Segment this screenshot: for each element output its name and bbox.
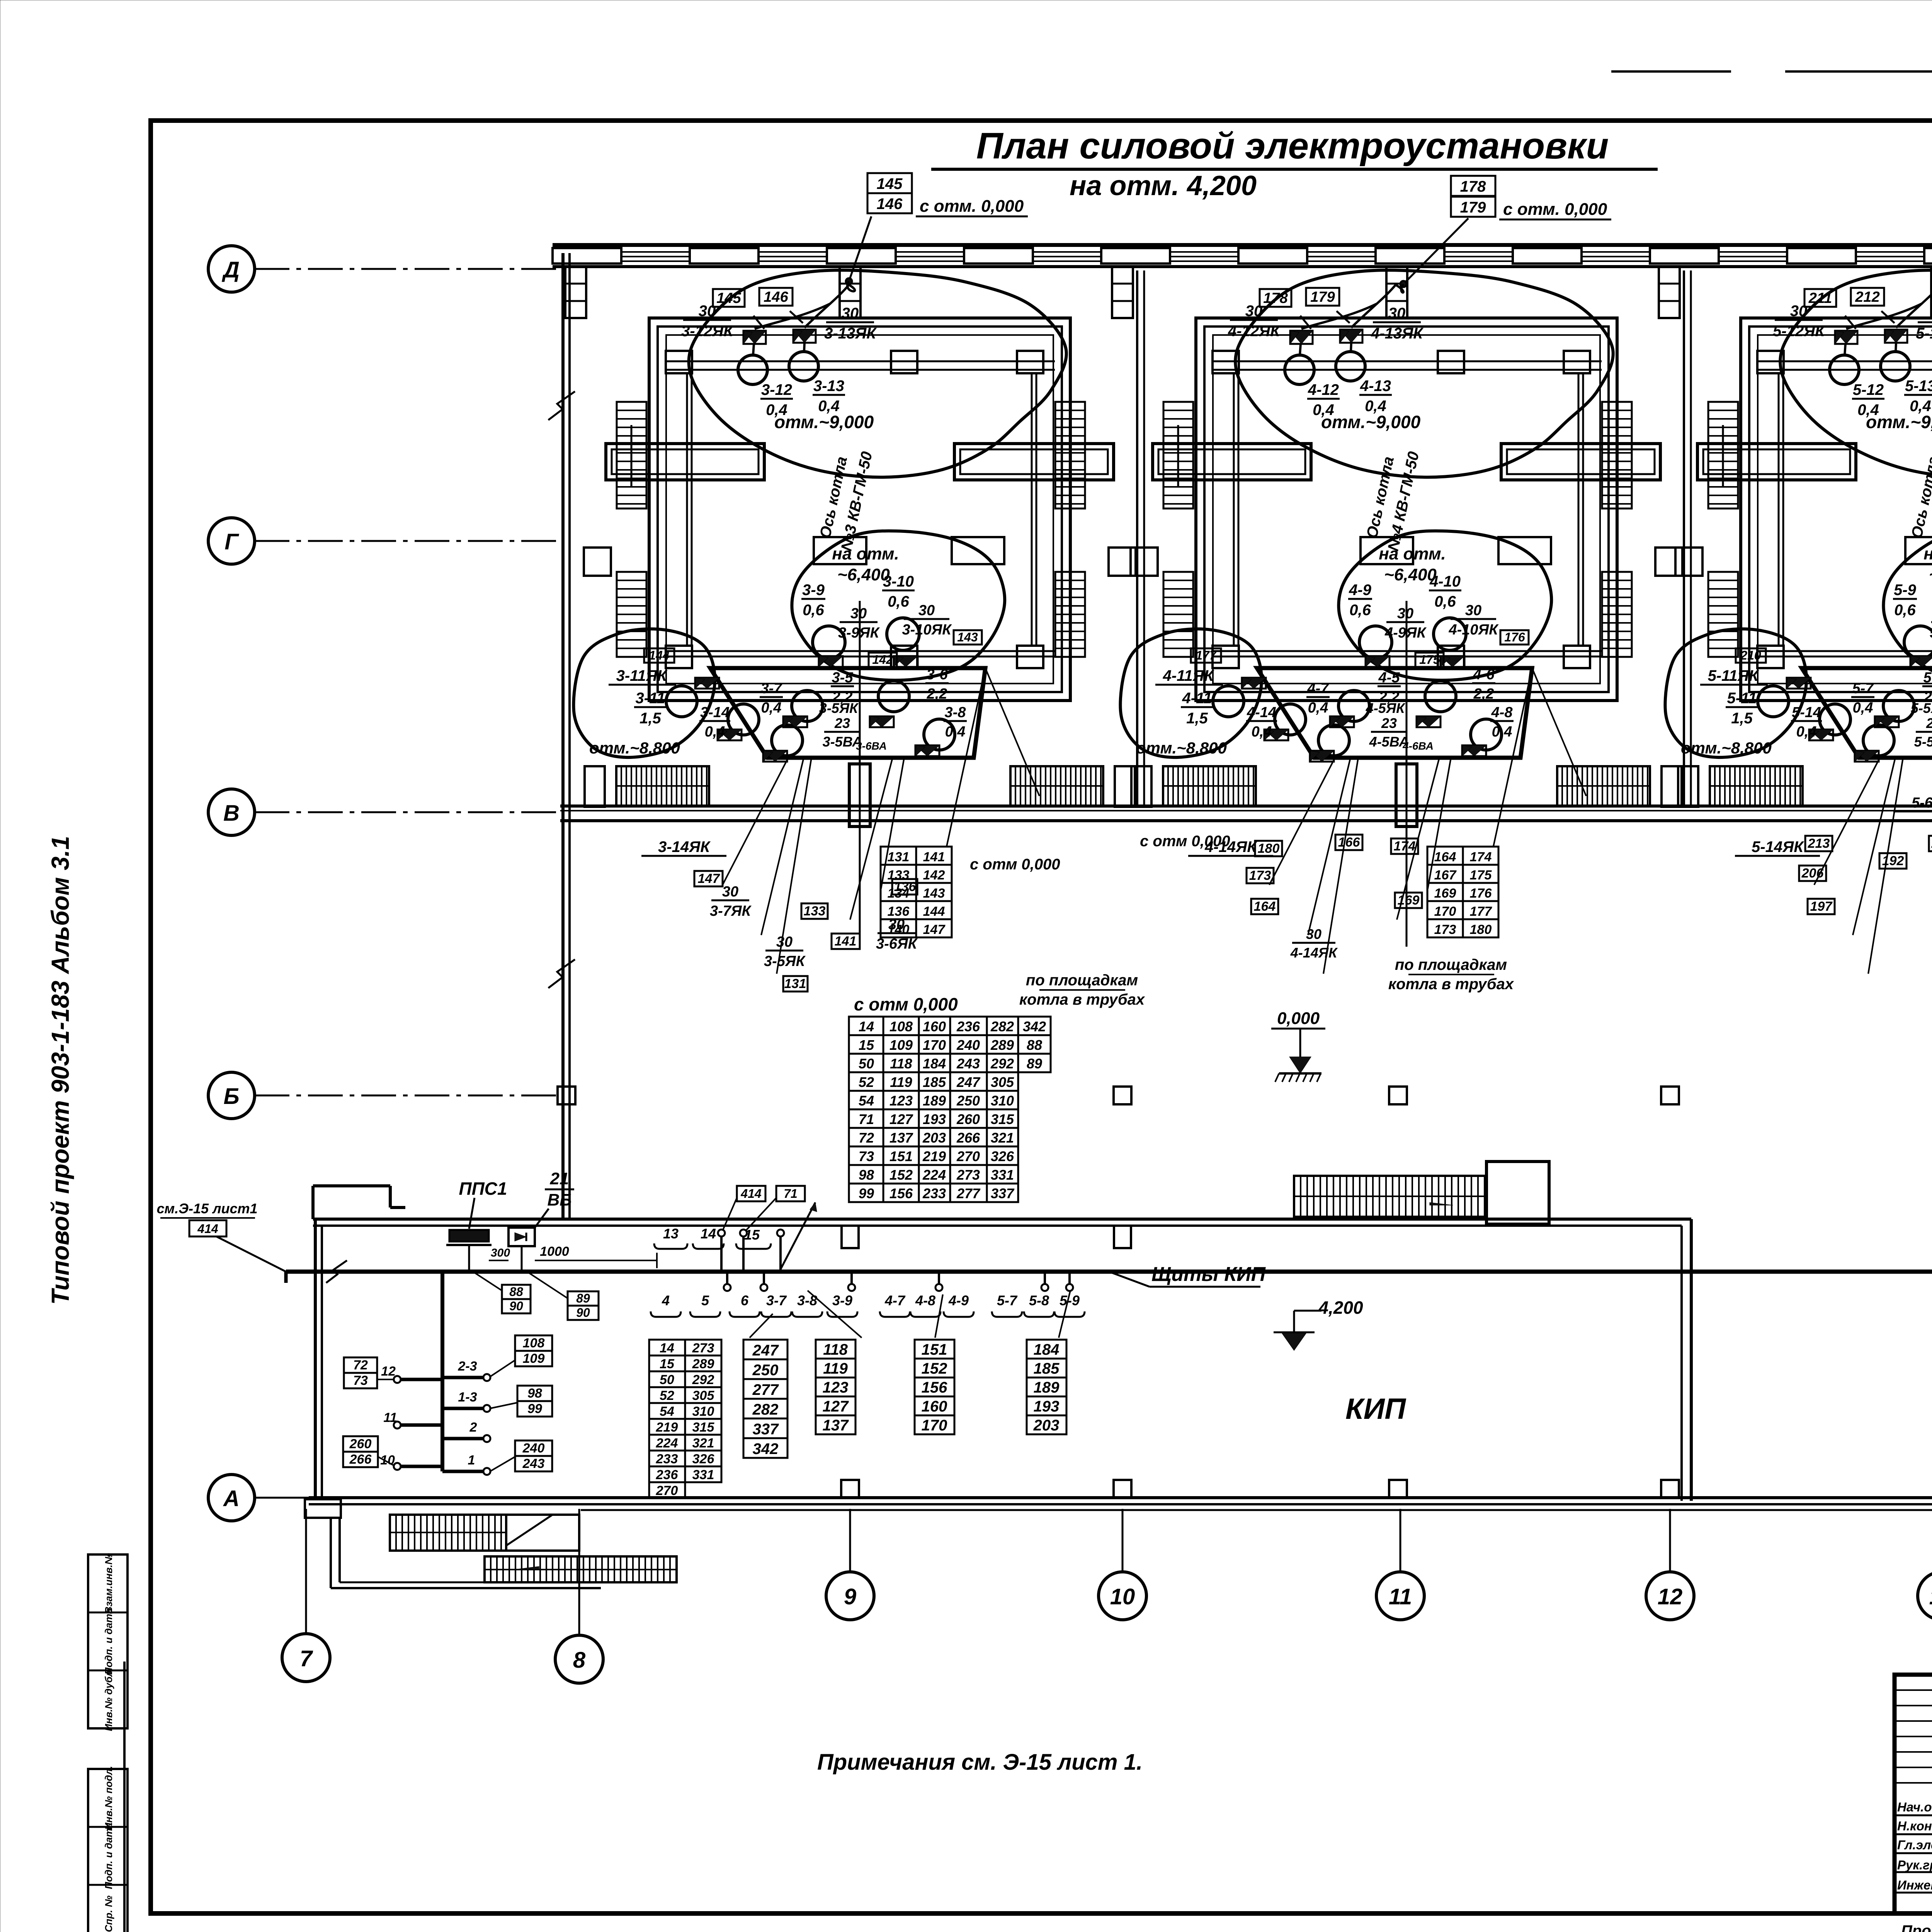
hall left wall bbox=[563, 253, 570, 1219]
label boxes 145 146 bbox=[867, 173, 1028, 216]
svg-text:0,4: 0,4 bbox=[1252, 724, 1272, 740]
boiler 4 mid label elev bbox=[1379, 544, 1446, 584]
partition column line 1 bbox=[1137, 270, 1144, 806]
boiler 3 mid label elev bbox=[832, 544, 899, 584]
boiler 4 label 14 bbox=[1246, 704, 1277, 740]
partition column line 2 bbox=[1684, 270, 1691, 806]
svg-text:по площадкам: по площадкам bbox=[1395, 956, 1507, 973]
svg-text:152: 152 bbox=[889, 1167, 913, 1183]
svg-text:180: 180 bbox=[1258, 841, 1280, 856]
svg-text:3-10ЯК: 3-10ЯК bbox=[902, 622, 952, 638]
boiler 3 label box 143 bbox=[954, 630, 982, 645]
svg-text:Г: Г bbox=[224, 529, 239, 554]
boiler 3 left flag bbox=[695, 678, 719, 689]
boiler 3 feeder label 10 bbox=[902, 602, 952, 638]
svg-text:5-13: 5-13 bbox=[1905, 378, 1932, 395]
svg-text:4-9ЯК: 4-9ЯК bbox=[1384, 625, 1427, 641]
svg-text:236: 236 bbox=[956, 1019, 980, 1034]
boiler 4 panel label 5yak bbox=[1366, 700, 1406, 716]
svg-text:1,5: 1,5 bbox=[639, 710, 661, 727]
svg-text:В: В bbox=[223, 801, 240, 826]
svg-text:30: 30 bbox=[1306, 926, 1321, 942]
label box 88-90 bbox=[475, 1273, 531, 1313]
svg-text:197: 197 bbox=[1810, 899, 1833, 914]
svg-text:Инв.№ подл.: Инв.№ подл. bbox=[103, 1766, 114, 1830]
svg-text:179: 179 bbox=[1460, 199, 1486, 216]
stair hatch top of KIP bbox=[1294, 1176, 1486, 1217]
svg-text:14: 14 bbox=[859, 1019, 874, 1034]
boiler 5 lower labels bbox=[1735, 795, 1932, 914]
svg-text:282: 282 bbox=[752, 1401, 779, 1418]
boiler 5 left label 11yak bbox=[1700, 667, 1768, 685]
feeder branches right bbox=[442, 1359, 490, 1475]
svg-text:0,4: 0,4 bbox=[705, 724, 725, 740]
axis 7 line bbox=[305, 1509, 307, 1634]
svg-text:на отм.: на отм. bbox=[832, 544, 899, 563]
boiler 5 mid label elev bbox=[1923, 544, 1932, 584]
svg-text:175: 175 bbox=[1470, 868, 1492, 883]
svg-text:177: 177 bbox=[1196, 648, 1217, 662]
svg-text:273: 273 bbox=[692, 1341, 714, 1355]
label box 98-99 bbox=[490, 1386, 552, 1417]
boiler 5 panel label 23 bbox=[1914, 715, 1932, 750]
svg-text:170: 170 bbox=[923, 1037, 946, 1053]
svg-text:210: 210 bbox=[1740, 648, 1761, 662]
boiler 4 label box 144 bbox=[1191, 648, 1221, 663]
svg-text:0,6: 0,6 bbox=[888, 593, 909, 610]
svg-text:5-11ЯК: 5-11ЯК bbox=[1708, 667, 1759, 684]
svg-text:184: 184 bbox=[923, 1056, 946, 1071]
svg-text:5-11: 5-11 bbox=[1727, 690, 1757, 707]
boiler 4 label box 143 bbox=[1500, 630, 1529, 645]
svg-text:14: 14 bbox=[701, 1226, 716, 1242]
boiler 4 left flag bbox=[1242, 678, 1266, 689]
svg-text:173: 173 bbox=[1434, 922, 1456, 937]
boiler 4 panel label 6 bbox=[1472, 667, 1495, 702]
stair block lower left bbox=[390, 1515, 579, 1551]
svg-text:0,4: 0,4 bbox=[1796, 724, 1817, 740]
boiler 4 motor label 10 bbox=[1429, 573, 1461, 610]
svg-text:88: 88 bbox=[1027, 1037, 1042, 1053]
boiler 3 lower labels bbox=[641, 838, 918, 992]
svg-text:отм.~8,800: отм.~8,800 bbox=[1681, 739, 1772, 757]
svg-text:9: 9 bbox=[844, 1584, 856, 1609]
svg-text:23: 23 bbox=[834, 715, 850, 731]
svg-text:247: 247 bbox=[752, 1342, 779, 1359]
boiler 5 platform beams bbox=[1697, 444, 1932, 480]
axis А line bbox=[255, 1497, 309, 1499]
svg-text:15: 15 bbox=[859, 1037, 874, 1053]
boiler 4 mid works cloud bbox=[1338, 531, 1551, 680]
table boiler 4 circuits bbox=[1427, 847, 1498, 937]
svg-text:6: 6 bbox=[741, 1293, 749, 1308]
svg-text:184: 184 bbox=[1034, 1341, 1060, 1358]
svg-text:ППС1: ППС1 bbox=[459, 1179, 507, 1199]
svg-text:211: 211 bbox=[1808, 290, 1832, 306]
svg-text:4-7: 4-7 bbox=[884, 1293, 906, 1308]
axis В line bbox=[255, 811, 560, 813]
svg-text:3-11ЯК: 3-11ЯК bbox=[616, 667, 668, 684]
svg-text:243: 243 bbox=[522, 1456, 545, 1471]
svg-text:178: 178 bbox=[1263, 290, 1288, 306]
margin text: project name bbox=[46, 836, 74, 1304]
svg-text:156: 156 bbox=[922, 1379, 947, 1396]
boiler 5 panel label 5yak bbox=[1911, 700, 1932, 716]
title block frame bbox=[1895, 1675, 1932, 1913]
svg-text:Инженер: Инженер bbox=[1897, 1878, 1932, 1892]
svg-text:174: 174 bbox=[1470, 850, 1492, 864]
svg-text:213: 213 bbox=[1808, 836, 1830, 851]
annex top wall stubs bbox=[842, 1226, 1131, 1248]
svg-text:315: 315 bbox=[991, 1111, 1014, 1127]
svg-text:12: 12 bbox=[381, 1364, 396, 1379]
svg-text:3-7: 3-7 bbox=[766, 1293, 787, 1308]
boiler 3 label box B bbox=[759, 288, 793, 306]
boiler 4 label box 142 bbox=[1415, 653, 1444, 667]
sheet left edge bbox=[123, 1662, 126, 1932]
svg-text:5-5ЯК: 5-5ЯК bbox=[1911, 700, 1932, 716]
boiler 5 axis label bbox=[1908, 450, 1932, 553]
svg-text:4: 4 bbox=[662, 1293, 670, 1308]
svg-text:180: 180 bbox=[1470, 922, 1492, 937]
svg-text:140: 140 bbox=[888, 922, 910, 937]
svg-text:233: 233 bbox=[922, 1185, 946, 1201]
boiler 3 axis line bbox=[859, 601, 861, 947]
svg-text:4,200: 4,200 bbox=[1318, 1298, 1363, 1318]
svg-text:4-6: 4-6 bbox=[1473, 667, 1495, 683]
boiler 4 motor label 9 bbox=[1348, 582, 1372, 619]
svg-text:250: 250 bbox=[956, 1093, 980, 1109]
boiler 5 feeder label 13 bbox=[1916, 305, 1932, 342]
circuit group row bbox=[651, 1272, 1085, 1317]
svg-text:99: 99 bbox=[859, 1185, 874, 1201]
svg-text:414: 414 bbox=[197, 1222, 218, 1236]
svg-text:1-3: 1-3 bbox=[458, 1390, 477, 1405]
boiler 3 control panel bbox=[710, 668, 985, 758]
svg-text:54: 54 bbox=[859, 1093, 874, 1109]
boiler 4 panel label 7 bbox=[1306, 680, 1330, 716]
boiler 5 left flag bbox=[1787, 678, 1811, 689]
svg-text:5-9: 5-9 bbox=[1894, 582, 1917, 599]
boiler 3 casing bbox=[649, 318, 1070, 701]
svg-text:127: 127 bbox=[889, 1111, 913, 1127]
svg-text:109: 109 bbox=[889, 1037, 913, 1053]
margin stamp box upper bbox=[88, 1553, 128, 1731]
boiler 3 feeder label 13 bbox=[824, 305, 877, 342]
margin stamp box lower bbox=[88, 1766, 128, 1932]
svg-text:отм.~9,000: отм.~9,000 bbox=[1866, 412, 1932, 432]
svg-text:2,2: 2,2 bbox=[927, 686, 947, 702]
svg-text:50: 50 bbox=[859, 1056, 874, 1071]
boiler 4 panel label 23 bbox=[1369, 715, 1409, 750]
svg-text:289: 289 bbox=[990, 1037, 1014, 1053]
svg-text:164: 164 bbox=[1254, 899, 1276, 914]
boiler 5 mid motors bbox=[1904, 618, 1932, 658]
table main c otm 0000 bbox=[849, 1017, 1051, 1202]
svg-text:193: 193 bbox=[923, 1111, 946, 1127]
svg-text:300: 300 bbox=[491, 1247, 510, 1259]
svg-text:3-7ЯК: 3-7ЯК bbox=[710, 903, 752, 919]
feeder riser bbox=[440, 1272, 444, 1471]
svg-text:192: 192 bbox=[1882, 854, 1904, 868]
boiler 3 mid works cloud bbox=[792, 531, 1005, 680]
table circuits 4 bbox=[915, 1340, 954, 1434]
svg-text:21: 21 bbox=[550, 1169, 569, 1188]
svg-text:72: 72 bbox=[353, 1358, 368, 1372]
svg-text:170: 170 bbox=[922, 1417, 947, 1434]
boiler 4 lower labels bbox=[1188, 835, 1422, 961]
svg-text:189: 189 bbox=[923, 1093, 946, 1109]
svg-text:Б: Б bbox=[223, 1084, 239, 1109]
svg-text:141: 141 bbox=[835, 934, 857, 949]
svg-text:11: 11 bbox=[1389, 1584, 1412, 1609]
svg-text:71: 71 bbox=[784, 1187, 798, 1201]
boiler 3 panel distribution boxes bbox=[718, 716, 939, 762]
boiler 4 platform beams bbox=[1153, 444, 1660, 480]
axis circle 11 bbox=[1376, 1572, 1424, 1620]
svg-text:321: 321 bbox=[692, 1436, 714, 1451]
svg-text:240: 240 bbox=[522, 1441, 545, 1456]
svg-text:3-6: 3-6 bbox=[927, 667, 948, 683]
boiler 3 bottom rail bbox=[665, 646, 1055, 668]
svg-text:13: 13 bbox=[663, 1226, 679, 1242]
boiler 4 left motor bbox=[1213, 686, 1244, 717]
svg-text:292: 292 bbox=[990, 1056, 1014, 1071]
leader t4 bbox=[935, 1294, 943, 1338]
svg-text:Типовой проект 903-1-183: Типовой проект 903-1-183 Альбом 3.1 bbox=[46, 836, 74, 1304]
svg-text:152: 152 bbox=[922, 1360, 947, 1377]
break mark on left wall lower bbox=[548, 959, 575, 988]
boiler 3 top rail bbox=[665, 351, 1055, 373]
svg-text:151: 151 bbox=[889, 1148, 913, 1164]
boiler 4 bottom rail bbox=[1211, 646, 1602, 668]
boiler 3 panel label 6va bbox=[856, 740, 887, 752]
label box 240-243 bbox=[490, 1440, 552, 1471]
svg-text:219: 219 bbox=[922, 1148, 946, 1164]
svg-text:Рук.гр.: Рук.гр. bbox=[1897, 1858, 1932, 1872]
svg-text:котла в трубах: котла в трубах bbox=[1019, 991, 1145, 1008]
arrow to 15 bbox=[781, 1202, 817, 1269]
sheet top edge dashed line bbox=[1611, 70, 1932, 73]
svg-text:247: 247 bbox=[956, 1074, 981, 1090]
svg-text:266: 266 bbox=[349, 1452, 372, 1467]
svg-text:147: 147 bbox=[698, 871, 721, 886]
boiler 5 side columns bbox=[1779, 373, 1932, 646]
boiler 3 upper motors bbox=[738, 343, 818, 384]
svg-text:305: 305 bbox=[692, 1388, 715, 1403]
boiler 5 upper motors bbox=[1830, 343, 1910, 384]
boiler 5 panel label 7 bbox=[1851, 680, 1874, 716]
svg-text:73: 73 bbox=[353, 1373, 368, 1388]
boiler 4 left label 11yak bbox=[1155, 667, 1223, 685]
boiler 4 mid motors bbox=[1359, 618, 1466, 658]
svg-text:143: 143 bbox=[923, 886, 945, 901]
svg-text:151: 151 bbox=[922, 1341, 947, 1358]
boiler 4 elev label 9000 bbox=[1321, 412, 1421, 432]
boiler 5 label box B bbox=[1851, 288, 1884, 306]
svg-text:4-14ЯК: 4-14ЯК bbox=[1290, 945, 1338, 961]
svg-text:4-7: 4-7 bbox=[1307, 680, 1330, 697]
axis 11 line bbox=[1400, 1509, 1401, 1572]
svg-text:73: 73 bbox=[859, 1148, 874, 1164]
svg-text:на отм.: на отм. bbox=[1923, 544, 1932, 563]
boiler 4 casing bbox=[1196, 318, 1617, 701]
svg-text:А: А bbox=[223, 1486, 240, 1511]
svg-text:243: 243 bbox=[956, 1056, 980, 1071]
svg-text:4-9: 4-9 bbox=[1349, 582, 1372, 599]
svg-text:342: 342 bbox=[1023, 1019, 1046, 1034]
boiler 4 mid flags bbox=[1366, 656, 1464, 667]
annex left wall bbox=[315, 1219, 322, 1498]
svg-text:Нач.отд: Нач.отд bbox=[1897, 1800, 1932, 1814]
svg-text:289: 289 bbox=[692, 1357, 714, 1371]
svg-text:193: 193 bbox=[1034, 1398, 1060, 1415]
svg-text:414: 414 bbox=[740, 1187, 762, 1201]
svg-text:4-10: 4-10 bbox=[1429, 573, 1461, 590]
axis circle Б bbox=[208, 1072, 255, 1119]
svg-text:с отм 0,000: с отм 0,000 bbox=[1140, 833, 1230, 850]
svg-text:1000: 1000 bbox=[540, 1244, 569, 1259]
boiler 4 side cabinets bbox=[1131, 548, 1682, 576]
dimension 1000 bbox=[535, 1244, 657, 1268]
boiler 3 motor label 10 bbox=[882, 573, 915, 610]
svg-text:4-9: 4-9 bbox=[948, 1293, 969, 1308]
boiler 4 panel distribution boxes bbox=[1264, 716, 1486, 762]
svg-text:310: 310 bbox=[991, 1093, 1014, 1109]
boiler 4 ladders bbox=[1163, 402, 1632, 657]
boiler 3 top leader bbox=[846, 216, 871, 291]
svg-text:266: 266 bbox=[956, 1130, 980, 1146]
KIP room label bbox=[1345, 1393, 1406, 1425]
svg-text:0,4: 0,4 bbox=[1853, 700, 1873, 716]
boiler 4 label box B bbox=[1306, 288, 1339, 306]
svg-text:23: 23 bbox=[1926, 715, 1932, 731]
svg-text:89: 89 bbox=[1027, 1056, 1042, 1071]
svg-text:с отм. 0,000: с отм. 0,000 bbox=[920, 197, 1024, 216]
svg-text:173: 173 bbox=[1249, 868, 1271, 883]
svg-text:52: 52 bbox=[859, 1074, 874, 1090]
svg-text:203: 203 bbox=[922, 1130, 946, 1146]
svg-text:71: 71 bbox=[859, 1111, 874, 1127]
axis 9 line bbox=[849, 1509, 851, 1572]
svg-text:142: 142 bbox=[872, 653, 893, 667]
svg-text:109: 109 bbox=[523, 1351, 545, 1366]
axis circle 10 bbox=[1099, 1572, 1146, 1620]
svg-text:~6,400: ~6,400 bbox=[1929, 565, 1932, 584]
svg-text:185: 185 bbox=[923, 1074, 946, 1090]
svg-text:5-13ЯК: 5-13ЯК bbox=[1916, 325, 1932, 342]
title block signature rows bbox=[1897, 1799, 1932, 1893]
svg-text:326: 326 bbox=[991, 1148, 1014, 1164]
boiler 5 ladders bbox=[1708, 402, 1932, 657]
label box 89-90 bbox=[529, 1273, 599, 1320]
boiler 4 motor label 13 bbox=[1359, 378, 1392, 415]
svg-text:5-8: 5-8 bbox=[1029, 1293, 1049, 1308]
svg-text:3-14: 3-14 bbox=[700, 704, 730, 721]
svg-text:137: 137 bbox=[823, 1417, 849, 1434]
boiler 4 panel label 8 bbox=[1490, 704, 1514, 740]
boiler 3 left elev 8800 bbox=[589, 739, 680, 757]
svg-text:145: 145 bbox=[877, 175, 903, 192]
boiler 4 axis label bbox=[1363, 450, 1422, 553]
boiler 3 motor label 9 bbox=[801, 582, 825, 619]
svg-text:5-7: 5-7 bbox=[997, 1293, 1018, 1308]
axis 12 line bbox=[1669, 1509, 1671, 1572]
svg-text:5-12ЯК: 5-12ЯК bbox=[1773, 323, 1825, 340]
svg-text:185: 185 bbox=[1034, 1360, 1060, 1377]
axis Г line bbox=[255, 540, 560, 542]
svg-text:147: 147 bbox=[923, 922, 946, 937]
boiler 3 mid motors bbox=[813, 618, 919, 658]
svg-text:2: 2 bbox=[469, 1420, 477, 1435]
svg-text:331: 331 bbox=[991, 1167, 1014, 1183]
svg-text:277: 277 bbox=[956, 1185, 981, 1201]
svg-text:30: 30 bbox=[1388, 305, 1406, 322]
svg-text:175: 175 bbox=[1419, 653, 1440, 667]
svg-text:0,6: 0,6 bbox=[1349, 602, 1371, 619]
axis circle 13 bbox=[1918, 1572, 1932, 1620]
svg-text:с отм 0,000: с отм 0,000 bbox=[970, 856, 1060, 873]
svg-text:156: 156 bbox=[889, 1185, 913, 1201]
boiler 5 hatch openings bbox=[1905, 537, 1932, 564]
boiler 5 motor label 12 bbox=[1852, 381, 1884, 418]
svg-text:30: 30 bbox=[918, 602, 935, 619]
svg-text:5-6ЯК: 5-6ЯК bbox=[1912, 795, 1932, 811]
label box 108-109 bbox=[490, 1335, 552, 1377]
title block below frame bbox=[1901, 1922, 1932, 1932]
svg-text:4-11ЯК: 4-11ЯК bbox=[1163, 667, 1214, 684]
PPS1 panel symbol bbox=[446, 1179, 507, 1272]
svg-text:146: 146 bbox=[764, 289, 788, 305]
label box 71 bbox=[746, 1186, 805, 1231]
axis Б line bbox=[255, 1095, 560, 1097]
table circuits 5 bbox=[1027, 1340, 1066, 1434]
boiler 4 upper motors bbox=[1285, 343, 1365, 384]
boiler 5 motor label 9 bbox=[1893, 582, 1917, 619]
boiler 4 left label 11 bbox=[1181, 690, 1213, 727]
boiler 5 mid works cloud bbox=[1883, 531, 1932, 680]
boiler 4 feeder label 10 bbox=[1448, 602, 1499, 638]
svg-text:123: 123 bbox=[823, 1379, 849, 1396]
label c otm boiler 4 bbox=[1140, 833, 1230, 850]
boiler 3 label box 144 bbox=[644, 648, 674, 663]
boiler 3 left works cloud bbox=[573, 629, 715, 757]
svg-text:1,5: 1,5 bbox=[1731, 710, 1753, 727]
boiler 3 left label 11 bbox=[634, 690, 667, 727]
annex wall column stubs bbox=[305, 1480, 1932, 1518]
boiler 4 hatch openings bbox=[1361, 537, 1551, 564]
svg-text:4-5: 4-5 bbox=[1378, 670, 1400, 686]
boiler 5 upper flags bbox=[1835, 330, 1907, 344]
svg-text:14: 14 bbox=[660, 1341, 674, 1355]
svg-text:3-14ЯК: 3-14ЯК bbox=[658, 838, 711, 855]
boiler 5 control panel bbox=[1802, 668, 1932, 758]
svg-text:2,2: 2,2 bbox=[1473, 686, 1494, 702]
table boiler 3 circuits bbox=[881, 847, 952, 937]
axis circle 9 bbox=[826, 1572, 874, 1620]
svg-text:144: 144 bbox=[923, 904, 945, 919]
boiler 3 left motor bbox=[666, 686, 697, 717]
svg-text:Щиты КИП: Щиты КИП bbox=[1151, 1263, 1266, 1286]
svg-text:0,000: 0,000 bbox=[1277, 1009, 1320, 1028]
boiler 4 top leader bbox=[1396, 218, 1468, 293]
svg-text:203: 203 bbox=[1033, 1417, 1060, 1434]
svg-text:108: 108 bbox=[523, 1336, 545, 1350]
svg-text:10: 10 bbox=[1110, 1584, 1135, 1609]
svg-text:143: 143 bbox=[957, 630, 978, 644]
svg-text:108: 108 bbox=[889, 1019, 913, 1034]
svg-text:Пров. Сириков: Пров. Сириков bbox=[1901, 1922, 1932, 1932]
